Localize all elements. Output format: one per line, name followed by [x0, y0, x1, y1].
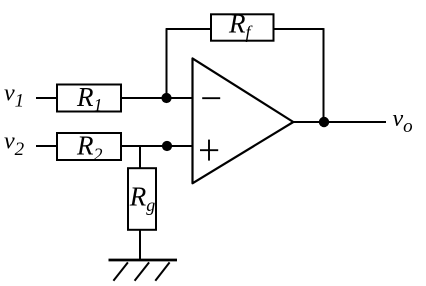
resistor Rg — [128, 168, 156, 230]
resistor Rf — [211, 8, 274, 42]
wire Rf to output column — [274, 28, 324, 30]
wire v1 to R1 — [36, 97, 57, 99]
node B junction dot — [162, 141, 172, 151]
svg-text:vo: vo — [393, 106, 413, 137]
wire node A up to feedback — [166, 29, 168, 98]
wire R1 to inverting input — [121, 97, 193, 99]
svg-text:v2: v2 — [4, 129, 25, 160]
wire op-amp output — [293, 121, 386, 123]
node A junction dot — [161, 93, 171, 103]
op-amp U1 — [193, 58, 294, 183]
wire down to output node — [323, 28, 325, 122]
wire R2 to non-inverting input — [121, 145, 193, 147]
op-amp non-inverting input plus sign — [200, 140, 218, 161]
resistor R1 — [57, 82, 121, 115]
resistor R2 — [57, 130, 121, 164]
wire feedback left to Rf — [166, 28, 211, 30]
svg-text:v1: v1 — [4, 80, 24, 111]
op-amp inverting input minus sign — [202, 97, 220, 99]
wire Rg to ground — [139, 230, 141, 260]
wire node B down to Rg — [139, 146, 141, 168]
wire v2 to R2 — [36, 145, 57, 147]
output node junction dot — [319, 117, 329, 127]
ground — [109, 260, 178, 281]
